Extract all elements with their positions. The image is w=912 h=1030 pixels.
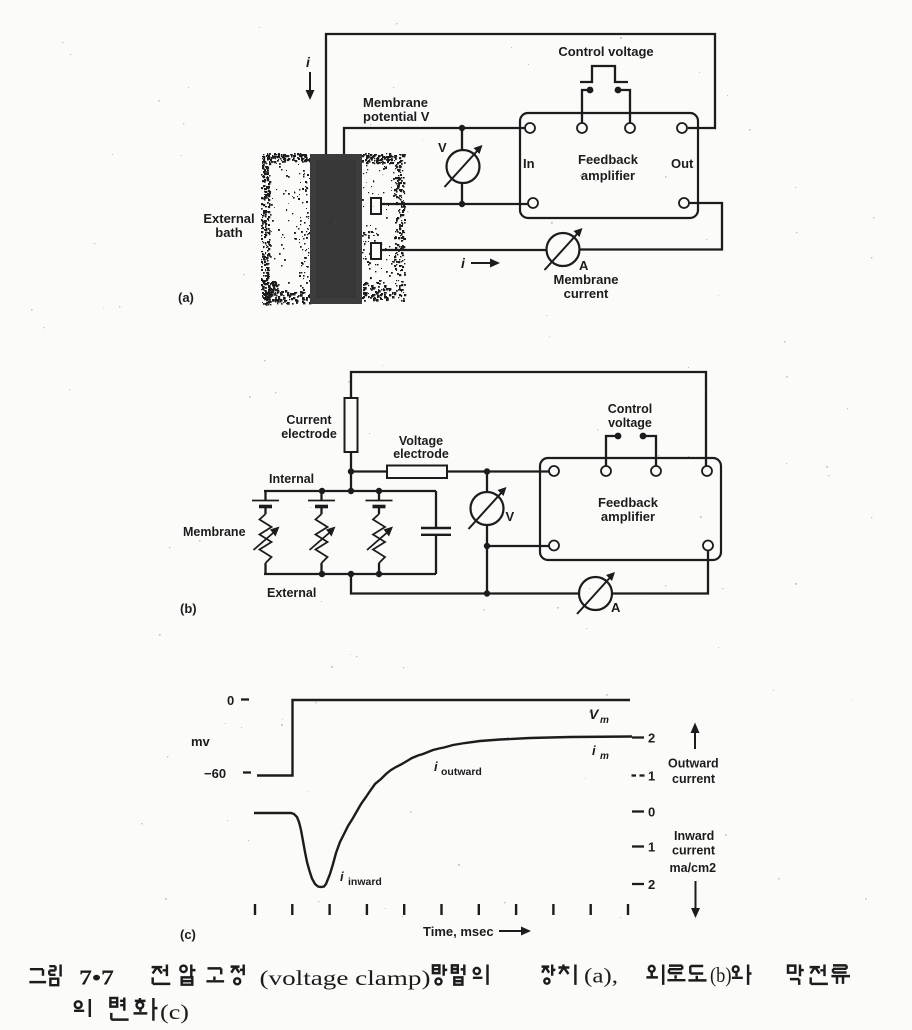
- wire Out to ammeter (a): [580, 203, 722, 250]
- label Time msec arrow: [423, 924, 531, 939]
- svg-text:Internal: Internal: [269, 472, 314, 486]
- label im: [592, 743, 609, 762]
- svg-text:(b): (b): [710, 963, 732, 987]
- terminals top row (a): [525, 123, 687, 133]
- svg-text:current: current: [672, 772, 716, 786]
- svg-text:bath: bath: [215, 225, 243, 240]
- label i arrow (a): [461, 255, 500, 271]
- label External bath: [203, 211, 254, 240]
- svg-text:V: V: [506, 509, 515, 524]
- label Control voltage (a): [558, 44, 653, 59]
- label Inward current ma/cm2: [670, 829, 717, 875]
- svg-text:External: External: [203, 211, 254, 226]
- wire voltage electrode line (b): [351, 468, 549, 474]
- svg-text:mv: mv: [191, 734, 211, 749]
- op-amp U1 feedback amplifier (a): [520, 113, 698, 218]
- svg-text:7•7: 7•7: [79, 966, 114, 990]
- external bath stipple left: [261, 153, 312, 306]
- label i outward: [434, 759, 482, 778]
- svg-text:External: External: [267, 586, 316, 600]
- time axis tick marks: [255, 904, 628, 915]
- wire top feedback loop (a): [326, 34, 715, 156]
- wire current electrode down (b): [348, 452, 354, 494]
- svg-text:i: i: [340, 869, 344, 884]
- terminals top row (b): [549, 466, 712, 476]
- label Current electrode: [281, 413, 337, 441]
- label In: [523, 156, 535, 171]
- wire membrane potential (a): [344, 125, 525, 156]
- svg-text:Control voltage: Control voltage: [558, 44, 653, 59]
- wire external bus (b): [264, 571, 436, 577]
- control voltage leads (a): [582, 87, 630, 123]
- svg-text:amplifier: amplifier: [601, 509, 655, 524]
- arrow inward down: [691, 881, 700, 918]
- svg-text:Membrane: Membrane: [183, 525, 246, 539]
- label Control voltage (b): [608, 402, 652, 430]
- svg-text:(voltage clamp): (voltage clamp): [260, 966, 431, 990]
- label (b): [180, 601, 197, 616]
- battery E2 (b): [308, 491, 335, 514]
- svg-text:0: 0: [648, 805, 655, 820]
- voltmeter V (a): [438, 128, 483, 204]
- voltmeter V (b): [469, 472, 515, 547]
- svg-text:In: In: [523, 156, 535, 171]
- right axis ticks current scale: [632, 731, 656, 893]
- terminals bottom row (a): [528, 198, 689, 208]
- electrode lower (a): [371, 243, 381, 259]
- svg-text:Feedback: Feedback: [598, 495, 659, 510]
- svg-text:(a),: (a),: [584, 964, 618, 988]
- label External: [267, 586, 316, 600]
- variable resistor R2 membrane conductance (b): [310, 514, 336, 574]
- label Vm: [589, 706, 609, 726]
- membrane dark band: [310, 154, 362, 304]
- svg-text:1: 1: [648, 840, 655, 855]
- svg-text:0: 0: [227, 693, 234, 708]
- svg-text:(a): (a): [178, 290, 194, 305]
- wire electrode to ammeter (a): [381, 249, 546, 251]
- label Internal: [269, 472, 314, 486]
- svg-text:electrode: electrode: [281, 427, 337, 441]
- svg-text:Control: Control: [608, 402, 652, 416]
- axis label mv: [191, 734, 211, 749]
- battery E1 (b): [252, 491, 279, 514]
- svg-text:voltage: voltage: [608, 416, 652, 430]
- svg-text:Feedback: Feedback: [578, 152, 639, 167]
- label Membrane: [183, 525, 246, 539]
- svg-text:outward: outward: [441, 766, 482, 778]
- label Out: [671, 156, 694, 171]
- svg-text:m: m: [600, 751, 609, 762]
- trace im membrane current: [254, 737, 632, 888]
- trace Vm voltage step: [257, 700, 630, 776]
- external bath stipple right: [362, 153, 406, 302]
- ammeter A (b): [577, 572, 621, 615]
- current electrode (b): [345, 398, 358, 452]
- caption line 2: [74, 998, 189, 1025]
- wire V to amp inputs (b): [484, 543, 549, 594]
- svg-text:2: 2: [648, 877, 655, 892]
- svg-text:Voltage: Voltage: [399, 434, 443, 448]
- label i inward: [340, 869, 382, 888]
- svg-text:Out: Out: [671, 156, 694, 171]
- svg-text:current: current: [564, 286, 609, 301]
- label Outward current: [668, 757, 719, 787]
- variable resistor R3 membrane conductance (b): [367, 514, 393, 574]
- svg-text:A: A: [611, 600, 621, 615]
- control voltage leads (b): [606, 433, 656, 466]
- svg-text:2: 2: [648, 731, 655, 746]
- axis label -60 tick: [204, 766, 251, 781]
- svg-text:Current: Current: [286, 413, 332, 427]
- node i current arrow (a): [306, 54, 315, 100]
- svg-text:ma/cm2: ma/cm2: [670, 861, 717, 875]
- capacitor C1 membrane capacitance (b): [421, 491, 451, 574]
- svg-text:(c): (c): [160, 1000, 189, 1024]
- wire electrode to In (a): [381, 201, 528, 207]
- svg-text:current: current: [672, 844, 716, 858]
- svg-text:amplifier: amplifier: [581, 168, 635, 183]
- svg-text:Inward: Inward: [674, 829, 714, 843]
- label Feedback amplifier (a): [578, 152, 639, 183]
- svg-text:Time, msec: Time, msec: [423, 924, 494, 939]
- control voltage pulse waveform (a): [580, 66, 628, 82]
- svg-text:(c): (c): [180, 927, 196, 942]
- axis label 0 tick: [227, 693, 249, 708]
- svg-text:potential V: potential V: [363, 109, 430, 124]
- svg-text:(b): (b): [180, 601, 197, 616]
- ammeter A membrane current (a): [545, 228, 590, 273]
- label (a): [178, 290, 194, 305]
- svg-text:Membrane: Membrane: [553, 272, 618, 287]
- arrow outward up: [691, 723, 700, 750]
- svg-text:Membrane: Membrane: [363, 95, 428, 110]
- svg-text:−60: −60: [204, 766, 226, 781]
- svg-text:m: m: [600, 715, 609, 726]
- variable resistor R1 membrane conductance (b): [254, 514, 280, 574]
- svg-text:inward: inward: [348, 876, 382, 888]
- svg-text:1: 1: [648, 769, 655, 784]
- wire top loop (b): [351, 372, 706, 466]
- label (c): [180, 927, 196, 942]
- svg-text:i: i: [434, 759, 438, 774]
- label Feedback amplifier (b): [598, 495, 659, 524]
- svg-text:A: A: [579, 258, 589, 273]
- voltage electrode (b): [387, 466, 447, 479]
- wire internal bus (b): [264, 488, 436, 494]
- wire bottom return (b): [351, 551, 708, 597]
- electrode upper (a): [371, 198, 381, 214]
- caption line 1: [29, 963, 850, 990]
- label Membrane potential V: [363, 95, 430, 124]
- svg-text:electrode: electrode: [393, 447, 449, 461]
- svg-text:i: i: [592, 743, 596, 758]
- op-amp U2 feedback amplifier (b): [540, 458, 721, 560]
- label Voltage electrode: [393, 434, 449, 461]
- svg-text:Outward: Outward: [668, 757, 719, 771]
- label Membrane current (a): [553, 272, 618, 301]
- terminals bottom row (b): [549, 541, 713, 551]
- battery E3 (b): [366, 491, 393, 514]
- svg-text:V: V: [438, 140, 447, 155]
